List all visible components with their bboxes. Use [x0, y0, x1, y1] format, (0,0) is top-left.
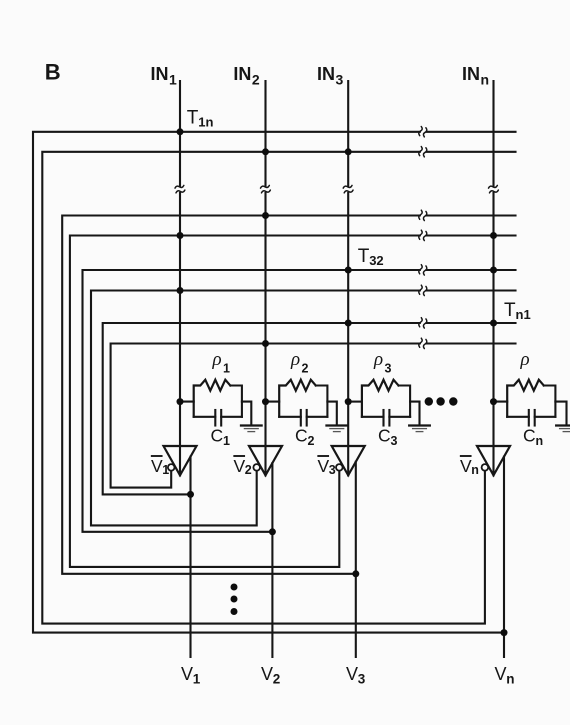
svg-text:T: T	[504, 300, 516, 321]
svg-text:1: 1	[169, 72, 177, 88]
svg-text:V: V	[495, 664, 507, 684]
svg-text:C: C	[378, 426, 391, 446]
svg-text:V: V	[460, 456, 472, 476]
svg-text:1: 1	[223, 434, 230, 448]
svg-text:2: 2	[252, 72, 260, 88]
svg-text:2: 2	[302, 362, 309, 376]
svg-text:n: n	[471, 463, 479, 477]
svg-text:2: 2	[308, 434, 315, 448]
svg-text:3: 3	[329, 463, 336, 477]
svg-text:2: 2	[273, 672, 281, 687]
svg-text:1: 1	[223, 362, 230, 376]
svg-text:V: V	[151, 456, 163, 476]
svg-text:32: 32	[369, 253, 383, 268]
svg-text:1n: 1n	[198, 115, 213, 130]
svg-text:2: 2	[245, 463, 252, 477]
svg-text:3: 3	[391, 434, 398, 448]
svg-text:ρ: ρ	[212, 349, 222, 370]
svg-text:ρ: ρ	[373, 349, 383, 370]
svg-text:V: V	[318, 456, 330, 476]
svg-text:3: 3	[336, 72, 344, 88]
svg-text:3: 3	[385, 362, 392, 376]
svg-text:V: V	[261, 664, 273, 684]
svg-text:ρ: ρ	[290, 349, 300, 370]
svg-text:3: 3	[358, 672, 366, 687]
svg-text:C: C	[211, 426, 224, 446]
svg-text:T: T	[187, 108, 199, 129]
svg-text:IN: IN	[317, 64, 335, 84]
svg-text:C: C	[523, 426, 536, 446]
svg-text:ρ: ρ	[520, 349, 530, 370]
svg-text:B: B	[45, 60, 61, 85]
svg-text:1: 1	[162, 463, 169, 477]
svg-text:V: V	[346, 664, 358, 684]
svg-text:T: T	[358, 246, 370, 267]
svg-text:V: V	[181, 664, 193, 684]
svg-text:n: n	[506, 672, 514, 687]
svg-text:IN: IN	[233, 64, 251, 84]
svg-text:n1: n1	[516, 307, 531, 322]
svg-text:V: V	[234, 456, 246, 476]
svg-text:IN: IN	[151, 64, 169, 84]
svg-text:n: n	[481, 72, 490, 88]
svg-text:n: n	[536, 434, 544, 448]
svg-text:C: C	[295, 426, 308, 446]
svg-text:1: 1	[193, 672, 201, 687]
svg-text:IN: IN	[462, 64, 480, 84]
